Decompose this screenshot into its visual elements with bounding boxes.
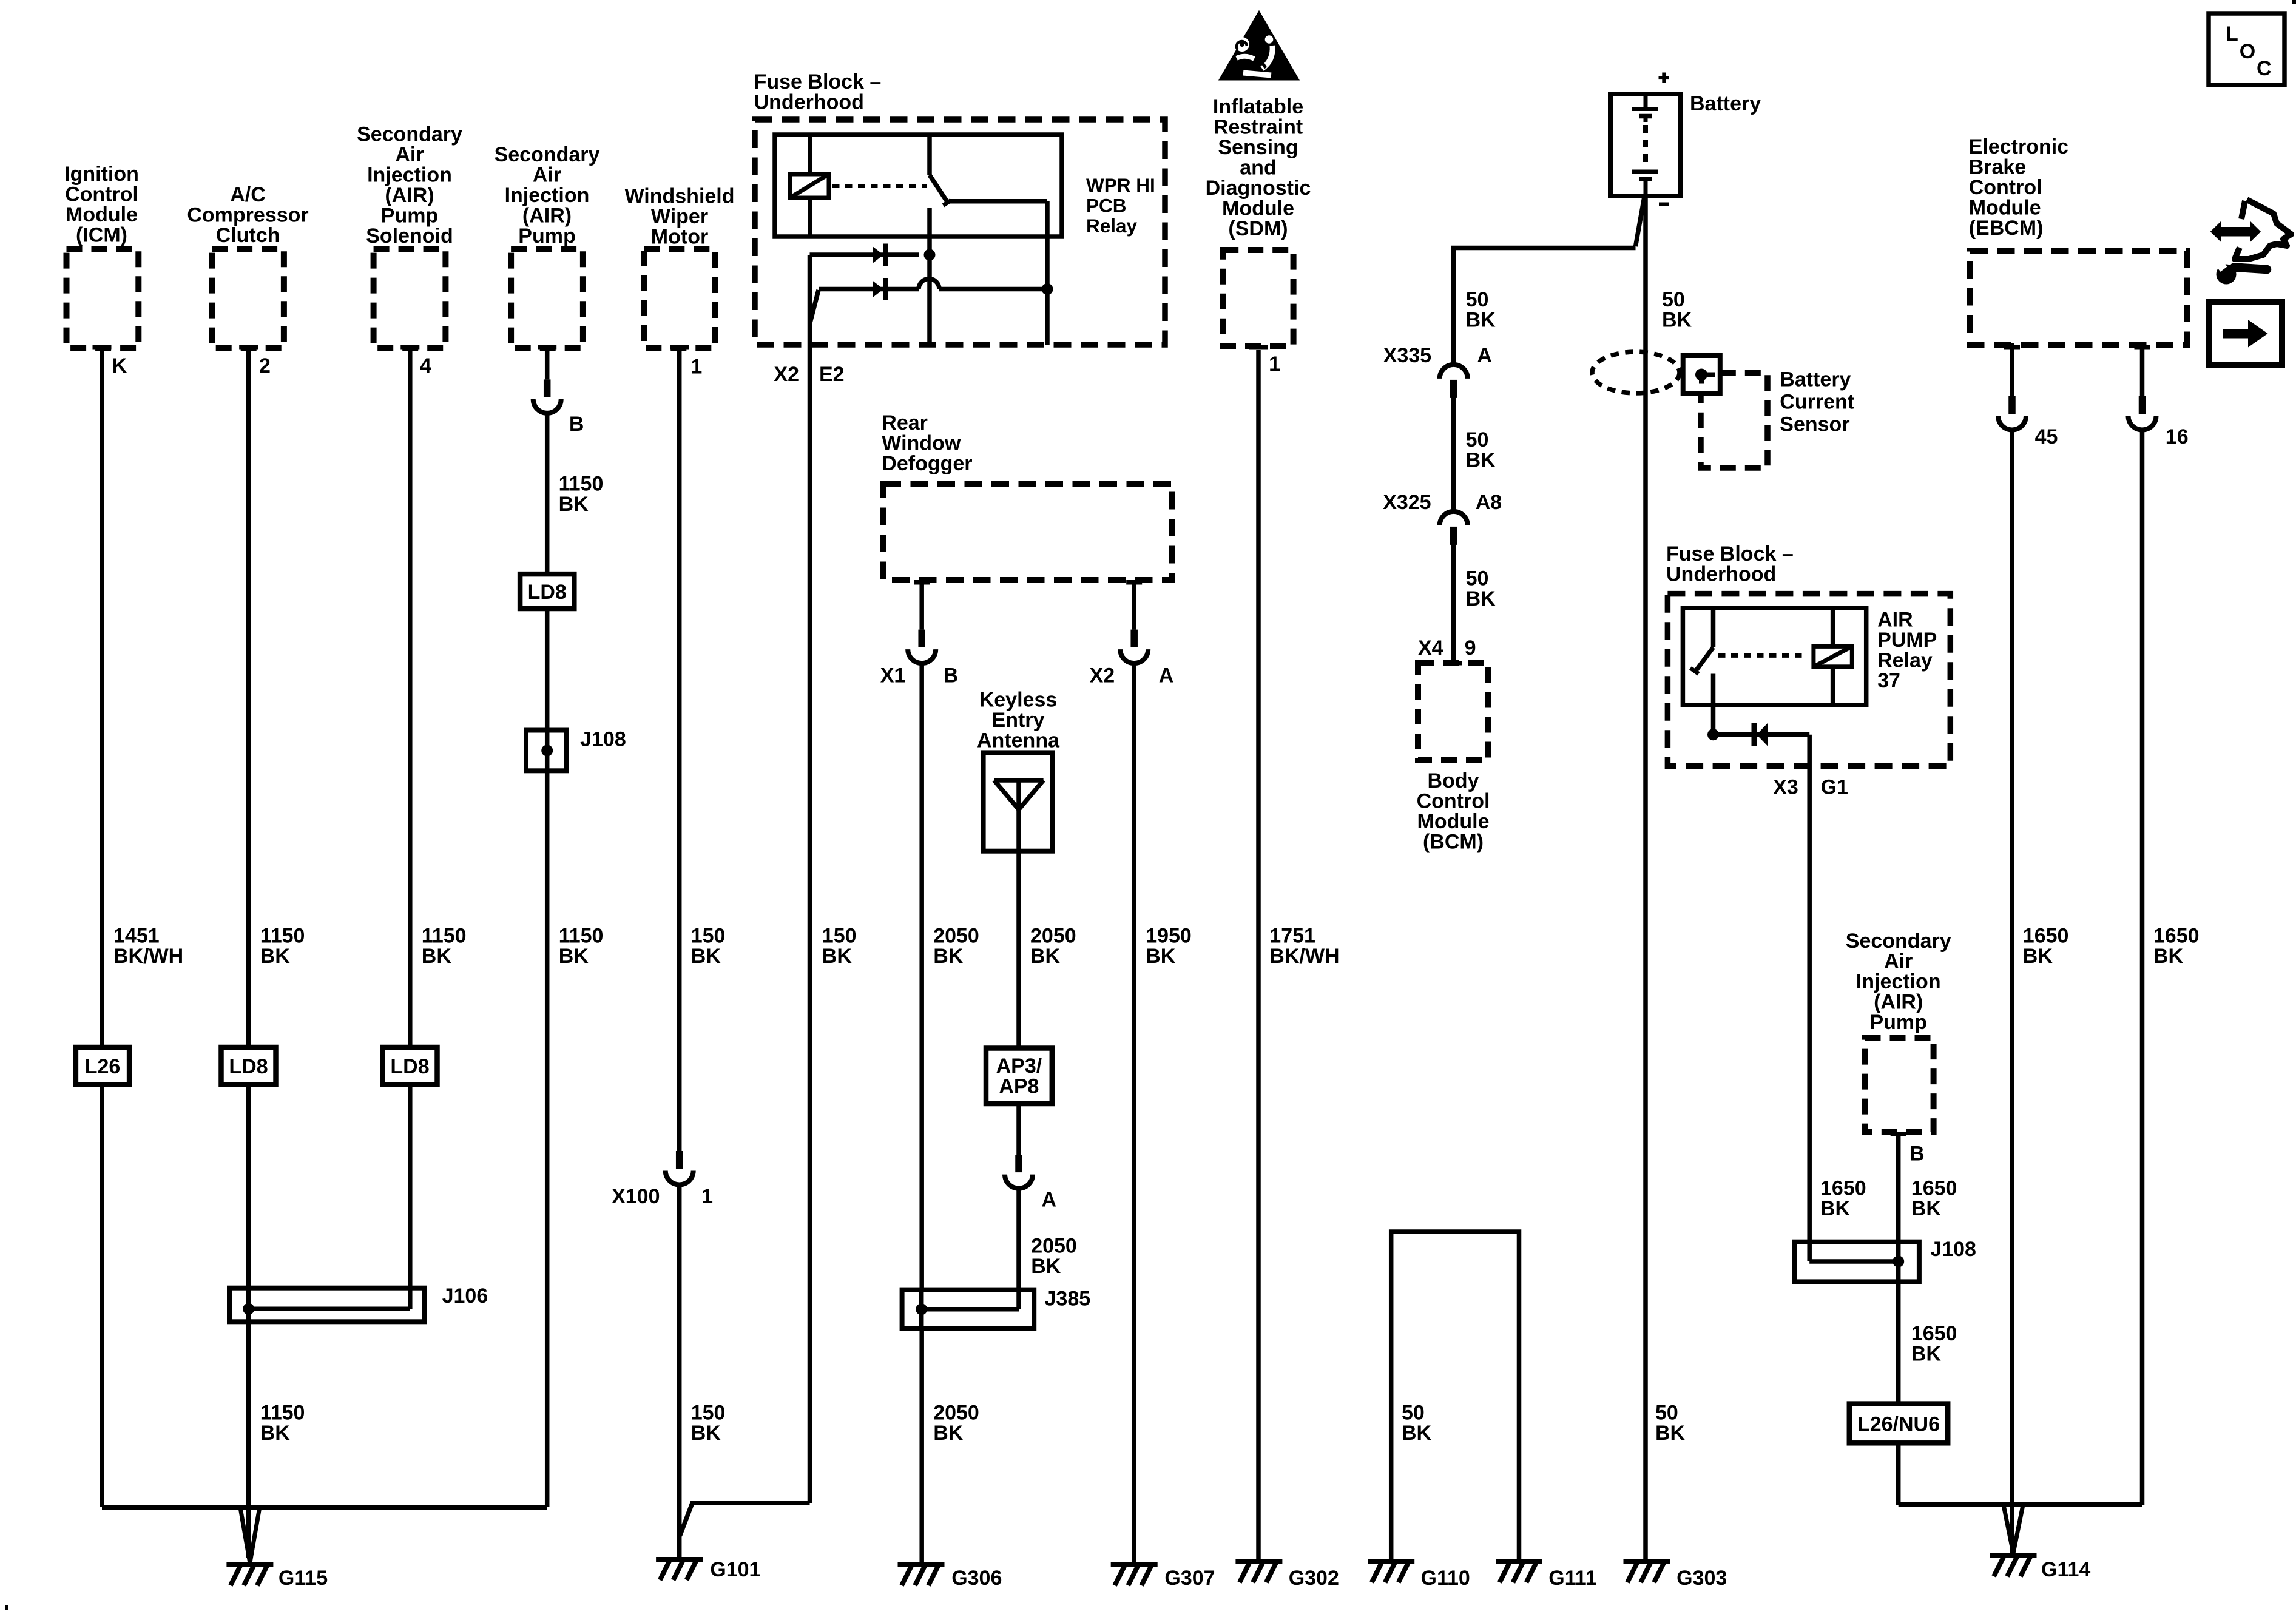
svg-text:Air: Air xyxy=(1884,950,1913,973)
svg-text:L26: L26 xyxy=(85,1055,121,1078)
svg-text:X100: X100 xyxy=(612,1185,660,1208)
svg-text:1451: 1451 xyxy=(113,924,160,947)
svg-text:AIR: AIR xyxy=(1877,608,1913,631)
svg-text:1150: 1150 xyxy=(260,924,305,947)
svg-text:50: 50 xyxy=(1466,567,1489,590)
svg-text:Sensor: Sensor xyxy=(1780,413,1849,436)
svg-text:(EBCM): (EBCM) xyxy=(1969,217,2044,240)
svg-text:Control: Control xyxy=(1417,790,1490,813)
svg-text:2: 2 xyxy=(259,354,271,377)
svg-text:16: 16 xyxy=(2166,425,2189,448)
svg-text:9: 9 xyxy=(1465,636,1476,660)
svg-text:A/C: A/C xyxy=(230,183,266,206)
svg-text:BK/WH: BK/WH xyxy=(1269,945,1339,968)
svg-text:Control: Control xyxy=(1969,176,2042,199)
svg-text:Injection: Injection xyxy=(505,184,590,207)
svg-text:B: B xyxy=(1909,1142,1925,1165)
svg-text:Air: Air xyxy=(395,143,424,166)
svg-text:Antenna: Antenna xyxy=(977,729,1060,752)
svg-text:Clutch: Clutch xyxy=(216,224,280,247)
svg-text:G115: G115 xyxy=(279,1567,328,1590)
svg-text:Secondary: Secondary xyxy=(357,123,462,146)
svg-text:G1: G1 xyxy=(1821,776,1848,799)
svg-text:Diagnostic: Diagnostic xyxy=(1206,177,1311,200)
svg-text:(BCM): (BCM) xyxy=(1423,831,1484,854)
svg-text:Module: Module xyxy=(66,203,138,226)
svg-text:1950: 1950 xyxy=(1146,924,1192,947)
svg-text:1: 1 xyxy=(690,356,702,379)
svg-text:Electronic: Electronic xyxy=(1969,135,2068,158)
svg-text:50: 50 xyxy=(1466,428,1489,451)
svg-text:G110: G110 xyxy=(1421,1567,1470,1590)
svg-text:O: O xyxy=(2240,40,2255,63)
svg-text:(AIR): (AIR) xyxy=(1874,991,1923,1014)
svg-text:50: 50 xyxy=(1466,288,1489,311)
svg-text:150: 150 xyxy=(822,924,857,947)
svg-text:Module: Module xyxy=(1969,197,2041,220)
svg-text:(AIR): (AIR) xyxy=(522,204,572,227)
svg-text:50: 50 xyxy=(1402,1402,1425,1425)
svg-text:BK: BK xyxy=(1402,1422,1432,1445)
svg-text:BK: BK xyxy=(691,945,721,968)
svg-text:BK: BK xyxy=(933,1422,964,1445)
svg-text:PCB: PCB xyxy=(1086,194,1127,216)
svg-text:E2: E2 xyxy=(819,363,845,386)
svg-text:L26/NU6: L26/NU6 xyxy=(1857,1413,1940,1436)
svg-text:BK: BK xyxy=(1662,309,1692,332)
svg-text:BK: BK xyxy=(1030,945,1061,968)
svg-text:G307: G307 xyxy=(1164,1567,1215,1590)
svg-text:Battery: Battery xyxy=(1780,368,1851,391)
svg-text:Rear: Rear xyxy=(882,411,928,434)
svg-text:150: 150 xyxy=(691,924,726,947)
svg-text:Wiper: Wiper xyxy=(651,205,708,228)
svg-text:Current: Current xyxy=(1780,391,1854,414)
svg-text:Windshield: Windshield xyxy=(624,185,734,208)
svg-text:LD8: LD8 xyxy=(229,1055,268,1078)
svg-text:BK: BK xyxy=(1911,1342,1942,1365)
svg-text:1650: 1650 xyxy=(2023,924,2069,947)
svg-text:AP8: AP8 xyxy=(999,1075,1039,1098)
svg-text:BK: BK xyxy=(1031,1255,1061,1278)
svg-text:(ICM): (ICM) xyxy=(76,224,127,247)
svg-text:Brake: Brake xyxy=(1969,156,2027,179)
svg-text:J108: J108 xyxy=(1930,1238,1976,1261)
svg-text:Pump: Pump xyxy=(381,204,438,227)
svg-text:G114: G114 xyxy=(2041,1558,2090,1581)
svg-text:BK: BK xyxy=(2023,945,2053,968)
svg-text:BK: BK xyxy=(2153,945,2184,968)
svg-text:1150: 1150 xyxy=(559,924,604,947)
svg-text:B: B xyxy=(944,664,959,687)
svg-text:1150: 1150 xyxy=(422,924,467,947)
svg-text:Pump: Pump xyxy=(1869,1011,1926,1034)
svg-text:1650: 1650 xyxy=(1820,1177,1866,1200)
svg-text:1650: 1650 xyxy=(1911,1322,1957,1345)
svg-text:4: 4 xyxy=(420,354,431,377)
svg-text:Sensing: Sensing xyxy=(1218,136,1298,159)
svg-text:G101: G101 xyxy=(710,1558,760,1581)
svg-text:Keyless: Keyless xyxy=(979,689,1058,712)
svg-text:PUMP: PUMP xyxy=(1877,629,1937,652)
svg-text:Underhood: Underhood xyxy=(754,91,864,114)
svg-text:and: and xyxy=(1240,157,1276,180)
svg-text:Secondary: Secondary xyxy=(495,143,600,166)
svg-text:C: C xyxy=(2257,57,2272,80)
svg-text:G302: G302 xyxy=(1289,1567,1339,1590)
svg-text:2050: 2050 xyxy=(933,924,979,947)
svg-text:1150: 1150 xyxy=(260,1402,305,1425)
svg-text:X2: X2 xyxy=(1090,664,1115,687)
svg-text:150: 150 xyxy=(691,1402,726,1425)
svg-text:1650: 1650 xyxy=(2153,924,2200,947)
svg-text:(SDM): (SDM) xyxy=(1228,217,1288,240)
svg-text:50: 50 xyxy=(1655,1402,1678,1425)
svg-text:BK: BK xyxy=(1146,945,1176,968)
svg-text:BK: BK xyxy=(691,1422,721,1445)
svg-text:BK: BK xyxy=(933,945,964,968)
svg-text:2050: 2050 xyxy=(1031,1235,1077,1258)
svg-text:Body: Body xyxy=(1428,769,1479,792)
svg-text:J108: J108 xyxy=(580,728,626,751)
svg-text:BK: BK xyxy=(1911,1197,1942,1220)
svg-text:Window: Window xyxy=(882,432,961,455)
svg-text:J106: J106 xyxy=(442,1284,488,1308)
svg-text:Ignition: Ignition xyxy=(64,163,139,186)
svg-text:Underhood: Underhood xyxy=(1666,562,1776,586)
svg-text:BK: BK xyxy=(1466,587,1496,610)
svg-text:X1: X1 xyxy=(880,664,906,687)
svg-text:Motor: Motor xyxy=(651,226,708,249)
svg-text:BK: BK xyxy=(1655,1422,1686,1445)
svg-text:Secondary: Secondary xyxy=(1846,930,1951,953)
svg-text:BK: BK xyxy=(822,945,853,968)
svg-text:G111: G111 xyxy=(1548,1567,1596,1590)
svg-text:37: 37 xyxy=(1877,669,1900,692)
svg-text:1751: 1751 xyxy=(1269,924,1315,947)
svg-text:G303: G303 xyxy=(1676,1567,1727,1590)
svg-text:AP3/: AP3/ xyxy=(996,1055,1042,1078)
svg-text:A: A xyxy=(1042,1188,1057,1211)
svg-text:BK: BK xyxy=(1466,449,1496,472)
svg-text:K: K xyxy=(112,354,127,377)
svg-text:45: 45 xyxy=(2035,425,2058,448)
svg-text:BK/WH: BK/WH xyxy=(113,945,183,968)
svg-text:A: A xyxy=(1477,344,1492,367)
svg-text:1150: 1150 xyxy=(559,472,604,495)
svg-text:Relay: Relay xyxy=(1877,649,1933,672)
svg-text:Entry: Entry xyxy=(992,709,1045,732)
svg-text:BK: BK xyxy=(559,945,589,968)
svg-text:Injection: Injection xyxy=(1856,970,1941,993)
svg-text:A8: A8 xyxy=(1476,491,1502,514)
svg-text:BK: BK xyxy=(1466,309,1496,332)
svg-text:Restraint: Restraint xyxy=(1214,116,1303,139)
svg-text:1650: 1650 xyxy=(1911,1177,1957,1200)
svg-text:Pump: Pump xyxy=(518,224,575,248)
svg-text:Module: Module xyxy=(1417,810,1490,833)
svg-text:Inflatable: Inflatable xyxy=(1213,95,1303,118)
svg-text:X3: X3 xyxy=(1773,776,1798,799)
svg-text:LD8: LD8 xyxy=(390,1055,429,1078)
svg-text:Injection: Injection xyxy=(367,163,452,186)
svg-text:BK: BK xyxy=(1820,1197,1851,1220)
svg-text:Solenoid: Solenoid xyxy=(366,224,453,248)
svg-text:Battery: Battery xyxy=(1690,92,1761,115)
svg-text:Module: Module xyxy=(1222,197,1294,220)
svg-text:Defogger: Defogger xyxy=(882,452,972,475)
svg-text:BK: BK xyxy=(559,493,589,516)
svg-text:50: 50 xyxy=(1662,288,1685,311)
svg-text:Fuse Block –: Fuse Block – xyxy=(1666,542,1794,565)
svg-text:Relay: Relay xyxy=(1086,215,1138,237)
svg-text:1: 1 xyxy=(1269,353,1280,376)
svg-text:BK: BK xyxy=(422,945,452,968)
svg-text:Air: Air xyxy=(533,163,561,186)
svg-text:2050: 2050 xyxy=(1030,924,1076,947)
svg-text:(AIR): (AIR) xyxy=(385,184,434,207)
svg-text:B: B xyxy=(569,413,584,436)
svg-text:BK: BK xyxy=(260,1422,291,1445)
svg-text:2050: 2050 xyxy=(933,1402,979,1425)
svg-text:X325: X325 xyxy=(1383,491,1431,514)
svg-text:Compressor: Compressor xyxy=(187,204,308,227)
svg-text:L: L xyxy=(2226,22,2238,46)
svg-text:A: A xyxy=(1159,664,1174,687)
svg-text:LD8: LD8 xyxy=(528,581,567,604)
svg-text:Fuse Block –: Fuse Block – xyxy=(754,70,882,93)
svg-text:X2: X2 xyxy=(774,363,799,386)
svg-text:X4: X4 xyxy=(1418,636,1443,660)
svg-text:Control: Control xyxy=(65,183,138,206)
svg-text:1: 1 xyxy=(701,1185,713,1208)
svg-text:G306: G306 xyxy=(951,1567,1002,1590)
svg-text:BK: BK xyxy=(260,945,291,968)
svg-text:X335: X335 xyxy=(1383,344,1431,367)
svg-text:WPR HI: WPR HI xyxy=(1086,174,1155,196)
svg-text:J385: J385 xyxy=(1045,1288,1091,1311)
